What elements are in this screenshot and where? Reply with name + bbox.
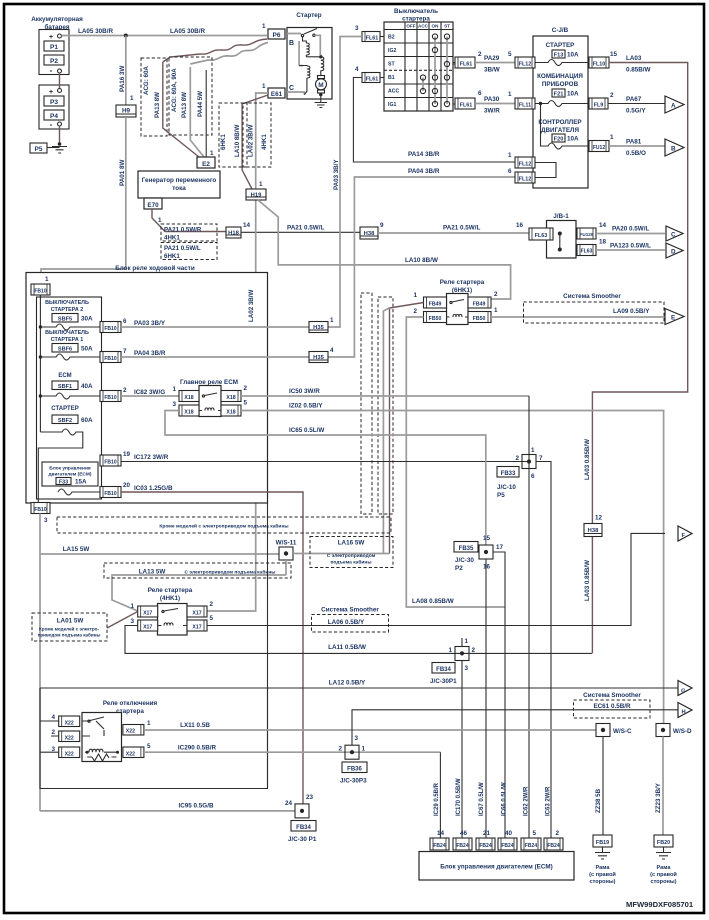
- node H: [678, 703, 692, 718]
- wire X22 stubs: [40, 721, 59, 752]
- svg-text:6: 6: [123, 318, 127, 325]
- svg-text:Реле отключения: Реле отключения: [103, 700, 158, 707]
- frame right label FB20: [650, 865, 677, 885]
- svg-text:FB19: FB19: [596, 840, 609, 846]
- fuse SBF6 starter switch 1: [39, 330, 100, 360]
- svg-text:FB24: FB24: [525, 843, 537, 849]
- fuse SBF2 starter: [38, 406, 93, 503]
- connector H35 pin1: [309, 317, 334, 333]
- junction FB33 J/C-10 P5: [497, 396, 551, 838]
- svg-text:2: 2: [610, 92, 614, 99]
- wire ZZ38 5B: [602, 737, 604, 836]
- svg-text:X17: X17: [143, 625, 152, 631]
- dashed box 4HK1 LA02: [243, 103, 271, 167]
- connector E61: [262, 83, 285, 98]
- svg-text:IC65 0.5L/W: IC65 0.5L/W: [289, 427, 324, 434]
- svg-text:2: 2: [51, 729, 55, 736]
- connector E70: [144, 198, 162, 209]
- node D: [666, 243, 683, 258]
- svg-text:PA21 0.5W/L: PA21 0.5W/L: [287, 225, 324, 232]
- svg-text:J/C-10: J/C-10: [497, 484, 516, 491]
- connector FL61 pin2: [453, 51, 482, 68]
- svg-text:E61: E61: [271, 91, 283, 98]
- fuse F13 starter: [535, 42, 589, 66]
- svg-text:FL11: FL11: [519, 103, 531, 109]
- wire IC03 1.25G/B: [121, 492, 303, 804]
- relay starter 4HK1: [130, 601, 213, 635]
- svg-text:IC62 2W/R: IC62 2W/R: [524, 786, 530, 816]
- wire IC65 0.5L/W: [165, 411, 486, 546]
- svg-text:W/S-D: W/S-D: [673, 728, 692, 735]
- svg-text:FB10: FB10: [104, 326, 116, 332]
- connector H38 pin9: [360, 222, 384, 239]
- dashed box LA13: [104, 563, 291, 578]
- svg-text:PA67: PA67: [626, 96, 642, 103]
- wire PA16 3W: [125, 36, 127, 106]
- svg-text:СТАРТЕР: СТАРТЕР: [546, 42, 575, 49]
- connector FB19: [593, 835, 612, 847]
- svg-text:J/C-30 P1: J/C-30 P1: [288, 836, 317, 843]
- dashed box LA01: [32, 613, 107, 641]
- wire PA20 0.5W/L: [596, 233, 665, 235]
- svg-text:PA123 0.5W/L: PA123 0.5W/L: [610, 243, 651, 250]
- svg-text:FB10: FB10: [104, 460, 116, 466]
- svg-text:LX11 0.5B: LX11 0.5B: [180, 722, 210, 729]
- svg-text:FL61: FL61: [366, 36, 379, 42]
- starter switch table: [384, 22, 453, 111]
- svg-text:M: M: [318, 82, 323, 89]
- svg-text:SBF5: SBF5: [58, 317, 72, 323]
- svg-text:PA21 0.5W/R: PA21 0.5W/R: [164, 227, 202, 234]
- fuse F33 output: [58, 489, 100, 495]
- ECM fuse sub box: [42, 462, 98, 486]
- connector H19: [246, 181, 266, 200]
- dashed box PA21 0.5W/L 6HK1: [161, 243, 217, 261]
- svg-text:C-J/B: C-J/B: [552, 27, 569, 34]
- svg-text:PA13 8W: PA13 8W: [154, 92, 161, 118]
- starter motor M: [316, 76, 327, 95]
- svg-text:F20: F20: [554, 137, 564, 143]
- dashed box LA16: [310, 537, 393, 568]
- svg-text:ПРИБОРОВ: ПРИБОРОВ: [542, 81, 579, 88]
- connector FL10 pin15: [589, 51, 618, 68]
- wire PA67 0.5G/Y: [608, 103, 665, 105]
- svg-text:ACG: 60A: ACG: 60A: [143, 66, 150, 95]
- svg-text:FU126: FU126: [580, 232, 594, 237]
- svg-text:LA15 5W: LA15 5W: [63, 546, 90, 553]
- svg-text:IZ02 0.5B/Y: IZ02 0.5B/Y: [289, 403, 323, 410]
- svg-text:5: 5: [508, 51, 512, 58]
- wire LA09 0.5B/Y to Smoother: [491, 316, 665, 318]
- svg-text:FB36: FB36: [347, 767, 362, 773]
- svg-text:14: 14: [599, 222, 607, 229]
- svg-text:FB20: FB20: [657, 840, 670, 846]
- node C: [666, 226, 683, 241]
- wire FL12 bridge: [535, 163, 556, 178]
- svg-text:3B/W: 3B/W: [484, 67, 500, 74]
- starter switch column links: [423, 37, 447, 105]
- svg-text:X18: X18: [184, 395, 193, 401]
- svg-text:16: 16: [516, 222, 524, 229]
- svg-text:H35: H35: [313, 325, 324, 331]
- node G: [678, 681, 692, 696]
- connector FL12 pin6: [508, 168, 535, 183]
- ground FB20: [656, 847, 671, 859]
- wire battery interlink: [59, 73, 61, 144]
- svg-text:19: 19: [123, 451, 131, 458]
- svg-text:LA05 30B/R: LA05 30B/R: [78, 28, 113, 35]
- svg-text:FL12: FL12: [519, 162, 532, 168]
- svg-text:X18: X18: [226, 410, 235, 416]
- svg-text:Стартер: Стартер: [296, 12, 321, 19]
- connector H38 pin12: [584, 515, 603, 537]
- svg-text:H18: H18: [228, 231, 239, 237]
- svg-text:5: 5: [532, 830, 536, 837]
- connector H9: [116, 95, 136, 117]
- battery P1/P2: [39, 30, 69, 76]
- wire PA21 0.5W/L to H38: [241, 231, 360, 233]
- svg-text:10A: 10A: [567, 136, 579, 143]
- wire LX11 0.5B: [144, 729, 597, 731]
- connector FL12 pin1: [508, 152, 535, 168]
- svg-text:X17: X17: [192, 625, 201, 631]
- wire IC290 0.5B/R: [144, 751, 441, 753]
- svg-text:+: +: [49, 89, 53, 96]
- svg-text:G: G: [681, 688, 686, 694]
- svg-text:LA06 0.5B/Y: LA06 0.5B/Y: [328, 619, 365, 626]
- svg-text:P1: P1: [50, 44, 58, 51]
- svg-text:LA10 8B/W: LA10 8B/W: [405, 257, 438, 264]
- svg-text:LA10 8B/W: LA10 8B/W: [234, 125, 241, 157]
- svg-text:С электроприводом подъема каби: С электроприводом подъема кабины: [185, 569, 276, 576]
- svg-text:3W/R: 3W/R: [484, 108, 500, 115]
- svg-text:2: 2: [555, 830, 559, 837]
- wire LA06 0.5B/Y to Smoother F: [207, 533, 665, 625]
- wire PA14 3B/R: [353, 78, 515, 163]
- wire LA15 5W: [40, 553, 279, 555]
- connector FB10 pin7: [100, 348, 127, 363]
- svg-text:IC170 0.5B/W: IC170 0.5B/W: [456, 778, 462, 816]
- svg-text:ВЫКЛЮЧАТЕЛЬ: ВЫКЛЮЧАТЕЛЬ: [45, 300, 89, 306]
- dashed box ACG 60A,90A variant: [169, 57, 212, 135]
- svg-text:FB10: FB10: [104, 395, 116, 401]
- svg-text:IC50 3W/R: IC50 3W/R: [289, 388, 320, 395]
- svg-text:IC172 3W/R: IC172 3W/R: [134, 454, 169, 461]
- svg-text:P3: P3: [50, 99, 58, 106]
- svg-text:стороны): стороны): [589, 879, 615, 885]
- wire IC172 3W/R to FB33: [121, 461, 529, 463]
- svg-text:P6: P6: [273, 32, 281, 39]
- fuse F21 combination: [535, 73, 589, 107]
- svg-text:1: 1: [330, 317, 334, 324]
- svg-text:6: 6: [531, 473, 535, 480]
- wire ZZ23 3B/Y: [662, 737, 664, 836]
- wire left bus FB10-3 down: [39, 514, 41, 812]
- svg-text:1: 1: [508, 91, 512, 98]
- svg-text:(с правой: (с правой: [589, 871, 616, 878]
- svg-text:IC63 2W/R: IC63 2W/R: [546, 786, 552, 816]
- svg-text:FB35: FB35: [459, 546, 474, 552]
- svg-text:Кроме моделей с электроприводо: Кроме моделей с электроприводом подъема …: [159, 523, 288, 530]
- svg-text:PA29: PA29: [484, 55, 500, 62]
- svg-text:SBF2: SBF2: [58, 418, 72, 424]
- svg-text:X18: X18: [226, 395, 235, 401]
- svg-text:FB24: FB24: [456, 843, 468, 849]
- svg-text:FB34: FB34: [296, 825, 311, 831]
- svg-text:SBF6: SBF6: [58, 347, 72, 353]
- svg-text:3: 3: [355, 735, 359, 742]
- svg-text:3: 3: [172, 401, 176, 408]
- connector FL61 pin6: [453, 90, 482, 109]
- svg-text:F: F: [682, 533, 686, 539]
- svg-text:LA12 0.5B/Y: LA12 0.5B/Y: [329, 680, 366, 687]
- wire LA02 3B/W from E61 to X17: [207, 93, 268, 611]
- node E: [665, 309, 684, 325]
- svg-text:46: 46: [460, 830, 468, 837]
- svg-text:E2: E2: [202, 161, 210, 168]
- connector FB10 pin20: [100, 482, 131, 498]
- svg-text:H19: H19: [251, 193, 262, 199]
- svg-text:приводом подъема кабины: приводом подъема кабины: [38, 632, 101, 638]
- svg-text:PA44 5W: PA44 5W: [197, 91, 204, 117]
- svg-text:A: A: [671, 103, 676, 110]
- svg-text:FB33: FB33: [501, 471, 516, 477]
- splice W/S-D: [656, 724, 692, 737]
- svg-text:PA30: PA30: [484, 96, 500, 103]
- connector FB24 pin40: [498, 830, 517, 850]
- svg-text:2: 2: [244, 385, 248, 392]
- connector FB24 pin21: [476, 830, 495, 850]
- svg-text:ON: ON: [432, 24, 440, 29]
- svg-text:FL61: FL61: [460, 103, 473, 109]
- svg-text:5: 5: [147, 743, 151, 750]
- svg-text:FB10: FB10: [104, 491, 116, 497]
- wire fuse bus: [39, 295, 41, 432]
- svg-text:СТАРТЕРА 2: СТАРТЕРА 2: [51, 307, 84, 313]
- connector FB20: [654, 835, 673, 847]
- starter internal wires: [287, 34, 320, 95]
- ECM box: [419, 852, 574, 881]
- svg-text:Рама: Рама: [657, 865, 672, 871]
- dashed box 6HK1 LA10: [219, 103, 247, 167]
- svg-text:23: 23: [306, 794, 314, 801]
- svg-text:3: 3: [465, 665, 469, 672]
- fuse panel box: [37, 297, 102, 499]
- svg-text:FB24: FB24: [433, 843, 445, 849]
- svg-text:FL63: FL63: [535, 233, 548, 239]
- svg-text:СТАРТЕРА 1: СТАРТЕРА 1: [51, 337, 84, 343]
- svg-text:20: 20: [123, 482, 131, 489]
- svg-text:FB10: FB10: [104, 356, 116, 362]
- junction starter coil: [319, 55, 322, 58]
- svg-text:J/C-30P1: J/C-30P1: [430, 678, 457, 685]
- wire LA03 0.85B/W main run: [592, 63, 687, 654]
- connector FB10 pin1: [31, 276, 50, 295]
- svg-text:LA02 3B/W: LA02 3B/W: [248, 290, 255, 322]
- svg-text:3: 3: [130, 618, 134, 625]
- svg-text:Генератор переменного: Генератор переменного: [142, 177, 217, 184]
- svg-text:Блок управления двигателем (EC: Блок управления двигателем (ECM): [440, 864, 553, 871]
- wire IC82 3W/G: [121, 395, 179, 397]
- svg-text:КОМБИНАЦИЯ: КОМБИНАЦИЯ: [537, 73, 583, 80]
- svg-text:PA04 3B/R: PA04 3B/R: [408, 168, 440, 175]
- svg-text:ZZ38 5B: ZZ38 5B: [595, 788, 602, 813]
- wire LA01 5W diagonal: [107, 612, 138, 629]
- svg-text:H38: H38: [588, 528, 599, 534]
- svg-text:E: E: [671, 315, 675, 322]
- dashed box PA21 0.5W/R 4HK1: [161, 224, 217, 242]
- svg-text:7: 7: [123, 348, 127, 355]
- wire LA16 5W: [293, 553, 390, 555]
- svg-text:PA01 8W: PA01 8W: [119, 159, 126, 186]
- wire IC50 3W/R: [241, 395, 529, 397]
- svg-text:PA20 0.5W/L: PA20 0.5W/L: [612, 226, 649, 233]
- svg-text:15: 15: [483, 535, 491, 542]
- svg-text:ECM: ECM: [58, 373, 71, 379]
- svg-text:LA11 0.5B/W: LA11 0.5B/W: [328, 644, 366, 651]
- svg-text:W/S-C: W/S-C: [613, 728, 632, 735]
- relay starter 6HK1: [413, 291, 498, 325]
- svg-text:1: 1: [531, 447, 535, 454]
- svg-text:1: 1: [413, 292, 417, 299]
- svg-text:стороны): стороны): [650, 879, 676, 885]
- svg-text:50A: 50A: [81, 346, 93, 353]
- dashed box krome modeley top: [57, 517, 391, 533]
- svg-text:-: -: [50, 120, 53, 129]
- svg-text:PA81: PA81: [626, 139, 642, 146]
- dashed box Smoother LA09: [524, 293, 665, 323]
- wire PA03 3B/Y vertical: [328, 37, 362, 328]
- wire PA13 8W variant: [190, 67, 204, 157]
- svg-text:W/S-11: W/S-11: [276, 540, 297, 547]
- svg-text:1: 1: [130, 95, 134, 102]
- junction battery negative: [58, 142, 62, 146]
- svg-text:P5: P5: [35, 146, 43, 153]
- dashed variant boxes mid: [361, 293, 393, 514]
- svg-text:X22: X22: [65, 736, 74, 742]
- starter hold coil: [303, 37, 310, 57]
- connector FL63 pin16: [529, 228, 553, 240]
- wire squiggle 2: [190, 43, 268, 65]
- ground FB19: [595, 847, 610, 859]
- wire LA11 0.5B/W: [125, 626, 592, 654]
- svg-text:FB10: FB10: [34, 289, 46, 295]
- svg-text:FB49: FB49: [429, 302, 442, 308]
- svg-text:IC29 0.5B/R: IC29 0.5B/R: [434, 782, 440, 816]
- svg-text:6: 6: [508, 168, 512, 175]
- svg-text:FB50: FB50: [473, 316, 486, 322]
- svg-text:3: 3: [44, 517, 48, 524]
- svg-text:10A: 10A: [567, 52, 579, 59]
- svg-text:PA03 3B/Y: PA03 3B/Y: [134, 320, 166, 327]
- connector FU12 pin1: [589, 134, 614, 152]
- svg-text:1: 1: [210, 150, 214, 157]
- svg-text:H38: H38: [364, 231, 375, 237]
- svg-text:Система Smoother: Система Smoother: [321, 607, 379, 614]
- svg-text:Выключатель: Выключатель: [394, 8, 438, 15]
- starter contact: [301, 29, 317, 37]
- connector FB24 pin2: [544, 830, 563, 850]
- svg-text:FL12: FL12: [519, 177, 532, 183]
- svg-text:6HK1: 6HK1: [164, 253, 180, 260]
- svg-text:LA13 5W: LA13 5W: [139, 569, 166, 576]
- connector FB24 pin5: [521, 830, 541, 850]
- junction FB34 J/C-30P1 upper: [430, 638, 476, 838]
- battery P3/P4: [39, 85, 69, 129]
- svg-text:MFW99DXF085701: MFW99DXF085701: [626, 900, 694, 909]
- svg-text:FB24: FB24: [501, 843, 513, 849]
- svg-text:OFF: OFF: [406, 24, 415, 29]
- starter switch contacts circles: [420, 34, 449, 107]
- svg-text:9: 9: [380, 222, 384, 229]
- svg-text:X22: X22: [65, 721, 74, 727]
- svg-text:Реле стартера: Реле стартера: [440, 279, 485, 286]
- connector FB10 pin19: [100, 451, 131, 466]
- relay cutoff starter X22: [51, 713, 151, 762]
- dashed box Smoother EC61: [574, 692, 651, 718]
- svg-text:1: 1: [494, 307, 498, 314]
- frame right label FB19: [589, 865, 616, 885]
- connector FB24 pin14: [430, 830, 449, 850]
- junction FB36 J/C-30P3: [338, 710, 678, 785]
- wire PA81 0.5B/O: [609, 145, 665, 147]
- ground starter: [315, 95, 328, 108]
- svg-text:E70: E70: [147, 202, 159, 209]
- svg-text:0.5G/Y: 0.5G/Y: [626, 108, 646, 115]
- svg-text:1: 1: [147, 720, 151, 727]
- svg-text:ACG: 60A, 90A: ACG: 60A, 90A: [171, 68, 178, 112]
- starter: [287, 12, 332, 99]
- svg-text:IC290 0.5B/R: IC290 0.5B/R: [178, 745, 217, 752]
- svg-text:40: 40: [505, 830, 513, 837]
- wire PA04 3B/R to H35: [121, 356, 309, 358]
- svg-text:LA08 0.85B/W: LA08 0.85B/W: [412, 598, 454, 605]
- svg-text:4HK1: 4HK1: [261, 134, 268, 150]
- svg-text:(4HK1): (4HK1): [160, 595, 180, 602]
- alternator: [138, 171, 220, 198]
- svg-text:J/C-30: J/C-30: [455, 557, 474, 564]
- svg-text:ST: ST: [388, 62, 395, 68]
- svg-text:7: 7: [539, 455, 543, 462]
- starter solenoid coil: [321, 57, 324, 75]
- svg-text:1: 1: [259, 181, 263, 188]
- wire LA12 0.5B/Y: [40, 687, 678, 689]
- battery label: [31, 16, 83, 31]
- svg-text:IC82 3W/G: IC82 3W/G: [134, 389, 165, 396]
- svg-text:FB34: FB34: [436, 667, 451, 673]
- relay block box: [26, 273, 268, 504]
- svg-text:ZZ23 3B/Y: ZZ23 3B/Y: [655, 782, 662, 813]
- connector FB10 pin2: [100, 387, 127, 402]
- svg-text:4: 4: [355, 66, 359, 73]
- svg-text:6: 6: [478, 90, 482, 97]
- svg-text:LA02 3B/W: LA02 3B/W: [248, 125, 255, 157]
- svg-text:FL61: FL61: [460, 62, 473, 68]
- svg-text:H35: H35: [313, 355, 324, 361]
- splice W/S-11: [276, 540, 297, 561]
- junction FB35 J/C-30 P2: [454, 535, 505, 838]
- svg-text:FL12: FL12: [519, 62, 532, 68]
- wire IC95 0.5G/B: [40, 810, 295, 812]
- svg-text:FL63: FL63: [581, 249, 593, 255]
- svg-text:С электроприводом: С электроприводом: [327, 553, 376, 559]
- connector H35 pin4: [309, 347, 334, 363]
- fuse box C-J/B: [533, 27, 588, 188]
- connector FL61 pin4: [355, 66, 384, 83]
- node F: [678, 526, 692, 541]
- svg-text:15A: 15A: [75, 479, 87, 486]
- svg-text:14: 14: [437, 830, 445, 837]
